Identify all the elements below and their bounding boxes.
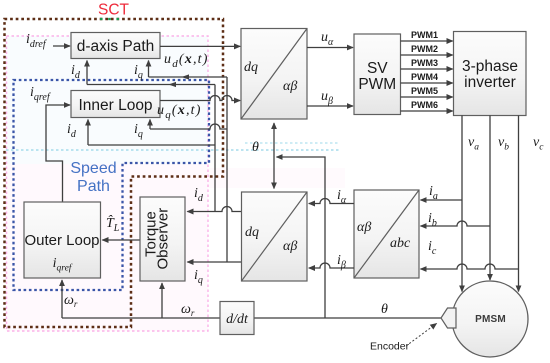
- tint region lower-left: [6, 164, 208, 331]
- wire vertical i_q riser: [226, 77, 228, 262]
- block Inner Loop: [71, 91, 160, 118]
- wire i_q feedback to d-axis Path: [149, 76, 228, 78]
- block SV PWM: [354, 34, 401, 115]
- wire i_qref from Outer Loop to Inner Loop: [46, 105, 70, 202]
- wire idref into d-axis Path: [53, 45, 70, 47]
- wires PWM1-6: [401, 40, 453, 42]
- wire u_alpha: [307, 47, 353, 49]
- block d/dt: [220, 302, 254, 335]
- svg-text:Inner Loop: Inner Loop: [78, 97, 152, 114]
- wire theta spine between dq boxes: [273, 123, 275, 157]
- svg-text:PWM5: PWM5: [411, 86, 438, 96]
- block ab/abc: [354, 190, 419, 278]
- wire i_d feedback to Inner Loop: [88, 144, 215, 146]
- svg-text:PWM1: PWM1: [411, 30, 438, 40]
- svg-text:Observer: Observer: [155, 208, 172, 270]
- wire i_q from dq box to Torque Observer: [187, 261, 241, 263]
- wire i_d from dq box to Torque Observer with hop: [187, 207, 241, 212]
- block Torque Observer: [140, 197, 185, 281]
- svg-text:PWM6: PWM6: [411, 100, 438, 110]
- svg-text:abc: abc: [390, 236, 411, 251]
- wire v_b down to PMSM: [489, 116, 491, 281]
- svg-text:d/dt: d/dt: [226, 312, 249, 327]
- svg-text:inverter: inverter: [464, 74, 516, 91]
- svg-text:Path: Path: [77, 178, 110, 195]
- wire v_c down to PMSM: [518, 116, 520, 292]
- wire i_b tap with hop: [421, 221, 491, 226]
- junction arrow mid i_d feedback: [169, 82, 177, 87]
- block Outer Loop: [24, 202, 101, 278]
- svg-text:θ: θ: [252, 140, 259, 155]
- svg-text:3-phase: 3-phase: [462, 58, 518, 75]
- wire i_beta with hop: [309, 263, 354, 268]
- svg-text:Outer Loop: Outer Loop: [24, 232, 99, 249]
- block dq/ab bottom: [242, 192, 308, 281]
- encoder tab: [441, 308, 456, 328]
- svg-text:αβ: αβ: [283, 79, 297, 94]
- cyan dashed line short: [245, 142, 340, 144]
- svg-text:αβ: αβ: [283, 239, 297, 254]
- block 3-phase inverter: [454, 32, 527, 116]
- wire vertical i_d riser: [214, 85, 216, 212]
- svg-text:dq: dq: [245, 225, 259, 240]
- Speed Path blue dashed region: [14, 80, 210, 290]
- svg-text:Encoder: Encoder: [370, 341, 410, 353]
- wire v_a down to PMSM: [461, 116, 463, 292]
- motor PMSM: [452, 281, 528, 357]
- wire u_q output to dq box with hops: [160, 96, 240, 101]
- wire i_d feedback to d-axis Path: [87, 84, 215, 86]
- svg-text:PWM3: PWM3: [411, 58, 438, 68]
- svg-text:SV: SV: [367, 60, 388, 77]
- block dq/ab top: [241, 29, 307, 120]
- svg-text:PWM2: PWM2: [411, 44, 438, 54]
- wire i_alpha with hop: [309, 199, 354, 204]
- svg-text:dq: dq: [244, 60, 258, 75]
- svg-text:PMSM: PMSM: [475, 314, 506, 325]
- tint region upper-left: [6, 36, 208, 164]
- block d-axis Path: [71, 33, 160, 59]
- svg-text:d-axis Path: d-axis Path: [77, 38, 155, 55]
- SCT brown dashed region: [5, 19, 224, 327]
- wire T_L from Torque Observer to Outer Loop: [102, 239, 140, 241]
- cyan dashed line long: [6, 149, 340, 151]
- junction arrow mid i_q feedback: [182, 74, 190, 79]
- wire i_q feedback to Inner Loop with hop: [150, 124, 227, 129]
- pink dashed rectangle: [7, 36, 209, 331]
- wire omega_r into Torque Observer: [161, 283, 163, 318]
- svg-text:θ: θ: [381, 302, 388, 317]
- wire i_a tap: [421, 199, 463, 201]
- wire u_d output to dq box: [160, 45, 240, 47]
- wire omega_r / theta main horizontal: [254, 317, 441, 319]
- green dash segment on top edge: [100, 18, 119, 20]
- wire i_c tap with hops: [421, 264, 519, 269]
- wire u_beta: [307, 105, 353, 107]
- svg-text:Speed: Speed: [70, 160, 116, 177]
- wire theta feed from right: [277, 157, 326, 318]
- tint band right of SCT: [208, 168, 345, 188]
- wire dotted encoder pointer: [406, 324, 437, 347]
- svg-text:αβ: αβ: [357, 220, 371, 235]
- svg-text:PWM4: PWM4: [411, 72, 438, 82]
- svg-text:SCT: SCT: [98, 2, 130, 19]
- svg-text:PWM: PWM: [358, 76, 396, 93]
